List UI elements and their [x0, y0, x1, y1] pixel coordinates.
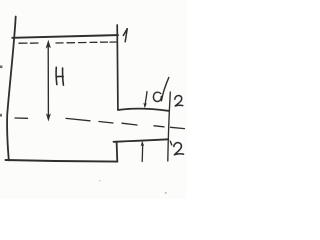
H arrowhead down — [46, 113, 51, 121]
pipe bottom wall — [114, 139, 169, 142]
label 2 (upper) — [175, 95, 183, 106]
d arrow (up) stem — [141, 146, 143, 162]
pipe top wall — [118, 109, 169, 111]
d arrowhead down — [143, 103, 147, 109]
tank right wall — [116, 25, 119, 110]
faint speck bottom right — [165, 192, 167, 194]
scan speck left edge upper — [0, 66, 2, 69]
label 2 (lower) — [174, 143, 184, 155]
tank left wall — [7, 17, 16, 161]
tick before lower 2 — [170, 141, 172, 145]
water surface dashed line — [19, 42, 117, 43]
pipe axis dashed centerline — [15, 118, 185, 129]
scan speck left edge lower — [0, 114, 2, 117]
step up from tank bottom to pipe bottom — [116, 142, 119, 162]
section 2 line — [168, 92, 171, 161]
d arrow (down) stem — [145, 92, 147, 105]
H arrowhead up — [46, 40, 51, 49]
d arrowhead up — [141, 141, 145, 147]
label 1 — [123, 29, 127, 42]
label d — [153, 78, 168, 102]
paper background — [0, 0, 187, 199]
tank top edge — [12, 35, 118, 38]
faint speck bottom middle — [99, 180, 100, 181]
label H — [56, 67, 63, 85]
H dimension arrow stem — [47, 44, 49, 117]
tank bottom edge — [6, 160, 118, 162]
